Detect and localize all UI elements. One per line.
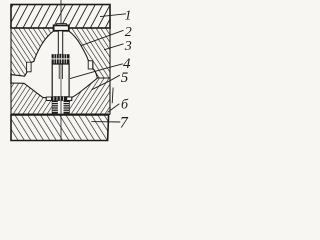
left locating box on cavity wall: [27, 62, 32, 72]
upper right mold half: [67, 28, 110, 78]
lower left mold half 5: [11, 83, 52, 114]
core body: [52, 64, 69, 97]
knurled nut 4 top: [52, 54, 70, 64]
leader line 1: [100, 14, 126, 17]
wire left edge through parting band: [10, 73, 12, 84]
svg-text:2: 2: [125, 25, 132, 40]
threaded bushing below: [52, 101, 69, 114]
svg-text:7: 7: [120, 115, 129, 132]
knurled flange bar 6: [51, 97, 67, 101]
leader line 7: [91, 121, 120, 123]
leader line 2: [81, 30, 124, 46]
leader tick above 6: [111, 88, 114, 104]
screw stem: [58, 31, 62, 55]
leader line 3: [104, 44, 124, 50]
centerline axis: [60, 0, 62, 141]
svg-text:5: 5: [121, 70, 129, 86]
leader line 6: [108, 104, 120, 113]
bottom plate 7: [11, 115, 109, 141]
screw shank inside body: [58, 64, 60, 79]
bushing flange ledge: [46, 97, 71, 100]
svg-text:1: 1: [125, 9, 132, 24]
leader line 4: [70, 64, 123, 79]
seam line between blocks and bottom plate: [11, 113, 110, 115]
svg-text:б: б: [121, 97, 129, 112]
svg-text:3: 3: [124, 39, 132, 54]
screw head recess: [57, 24, 67, 28]
upper left mold half 3: [11, 28, 55, 76]
lower right mold half: [69, 78, 110, 114]
right locating box on cavity wall: [88, 61, 93, 69]
screw head 2: [54, 25, 69, 30]
top plate 1: [11, 5, 110, 29]
leader line 5: [92, 75, 120, 90]
